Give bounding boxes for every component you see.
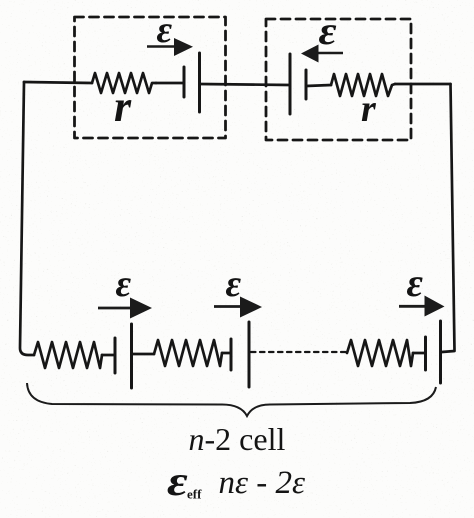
- svg-text:r: r: [114, 82, 132, 131]
- wire resistor3 to battery3 (bottom): [413, 352, 426, 355]
- wire battery to resistor (right cell): [306, 85, 331, 86]
- svg-text:ε: ε: [319, 10, 337, 54]
- svg-text:ε: ε: [407, 260, 424, 305]
- label r (right cell): [361, 88, 377, 130]
- wire to battery bottom 1: [102, 354, 115, 357]
- brace (n-2 cells): [27, 383, 436, 416]
- wire battery1 to resistor2 (bottom): [132, 353, 155, 356]
- resistor bottom 2: [154, 340, 222, 366]
- wire top-right: [395, 83, 451, 86]
- wire resistor to battery (left cell): [156, 82, 184, 85]
- battery bottom 2: [231, 322, 249, 387]
- svg-text:ε: ε: [116, 263, 132, 305]
- arrow + label e (right cell): [301, 10, 343, 63]
- arrow + label e (left cell): [147, 9, 193, 56]
- battery bottom 1: [115, 324, 132, 388]
- arrow + label e (bottom 3): [399, 260, 445, 317]
- svg-text:nε - 2ε: nε - 2ε: [219, 465, 306, 501]
- battery cell 1: [184, 53, 200, 112]
- resistor bottom 3: [347, 340, 413, 366]
- svg-text:ε: ε: [167, 459, 188, 505]
- battery cell 2 (reversed): [290, 54, 306, 114]
- battery bottom 3: [426, 321, 441, 383]
- cell box 2 (dashed): [266, 19, 411, 140]
- cell box 1 (dashed): [75, 17, 226, 138]
- svg-text:ε: ε: [226, 263, 242, 305]
- wire dashed continuation: [251, 351, 347, 353]
- wire left wall: [20, 82, 34, 355]
- svg-text:r: r: [361, 88, 377, 130]
- wire top-left: [24, 82, 92, 83]
- resistor r (right cell): [331, 74, 395, 96]
- label r (left cell): [114, 82, 132, 131]
- wire resistor2 to battery2 (bottom): [222, 352, 231, 355]
- resistor r (left cell): [92, 73, 156, 93]
- resistor bottom 1: [34, 342, 102, 368]
- label n-2 cell: [189, 421, 286, 457]
- arrow + label e (bottom 2): [214, 263, 262, 318]
- svg-text:n-2 cell: n-2 cell: [189, 421, 286, 457]
- svg-text:eff: eff: [187, 487, 202, 502]
- svg-text:ε: ε: [157, 9, 173, 51]
- wire right wall: [442, 84, 455, 352]
- label effective emf formula: [167, 459, 305, 505]
- arrow + label e (bottom 1): [98, 263, 152, 319]
- wire between cells: [200, 84, 290, 85]
